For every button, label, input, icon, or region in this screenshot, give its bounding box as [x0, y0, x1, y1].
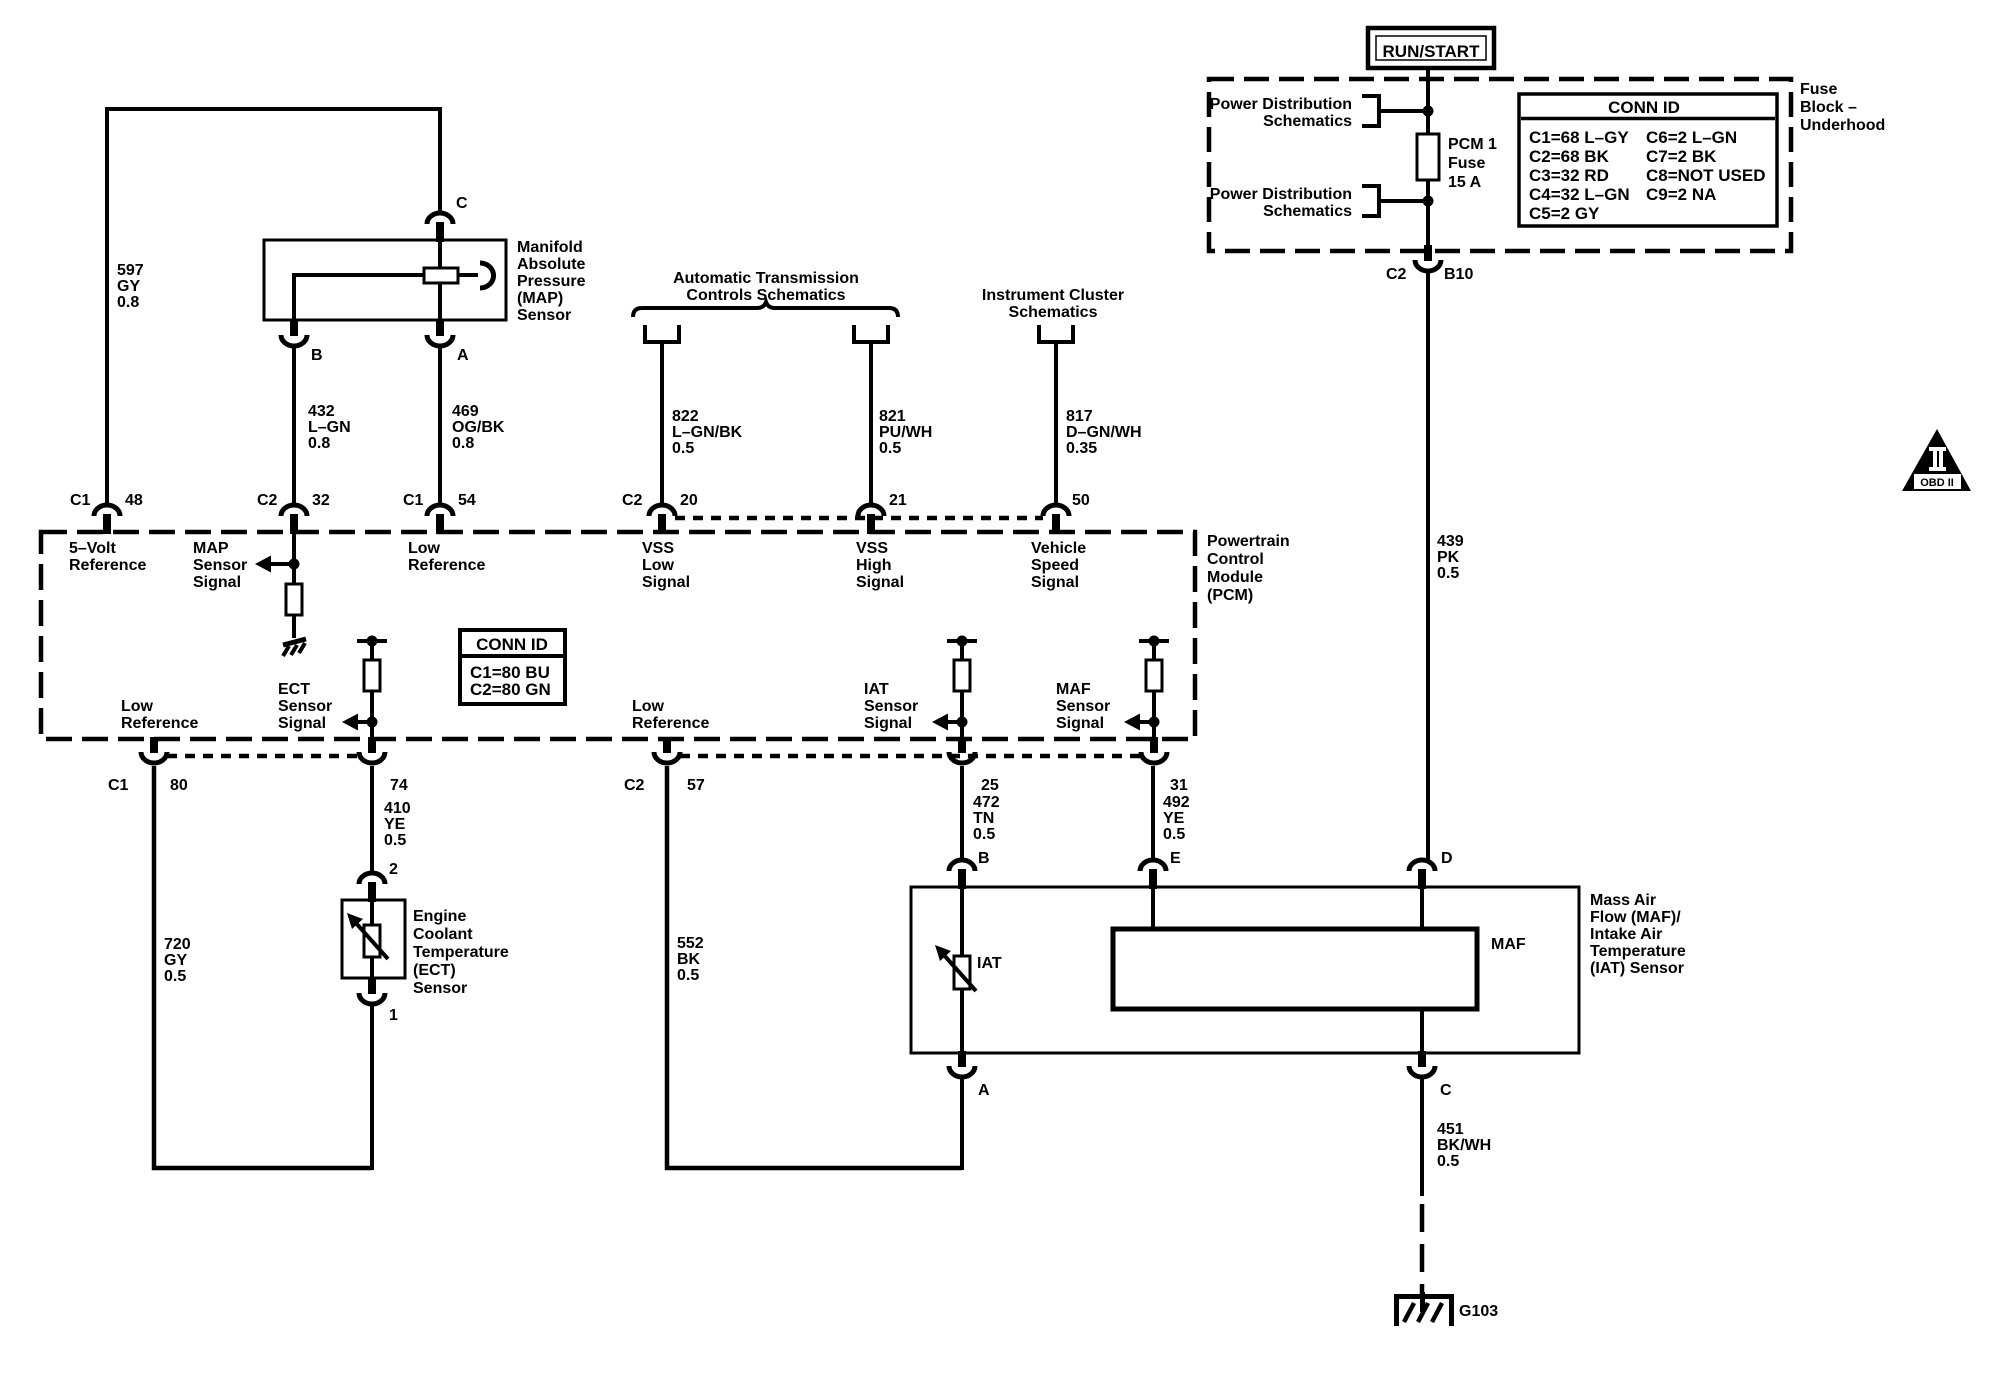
- svg-text:High: High: [856, 557, 892, 574]
- connector MAF pin A: [949, 1051, 975, 1077]
- svg-text:Signal: Signal: [642, 574, 690, 591]
- ECT variable arrow: [347, 913, 388, 959]
- svg-text:(IAT) Sensor: (IAT) Sensor: [1590, 960, 1684, 977]
- svg-text:D: D: [1441, 850, 1453, 867]
- connector pin 74: [359, 737, 385, 763]
- svg-text:48: 48: [125, 492, 143, 509]
- wire 597 GY vertical: [105, 107, 109, 505]
- svg-text:Mass Air: Mass Air: [1590, 892, 1656, 909]
- svg-text:0.5: 0.5: [879, 440, 901, 457]
- svg-text:(MAP): (MAP): [517, 290, 563, 307]
- svg-text:PU/WH: PU/WH: [879, 424, 932, 441]
- svg-text:552: 552: [677, 935, 704, 952]
- Fuse Block dashed box: [1209, 79, 1791, 251]
- svg-text:Temperature: Temperature: [413, 944, 509, 961]
- svg-text:Pressure: Pressure: [517, 273, 586, 290]
- wire D to MAF: [1420, 887, 1424, 929]
- svg-text:Speed: Speed: [1031, 557, 1079, 574]
- svg-text:Sensor: Sensor: [413, 980, 467, 997]
- wire 822 L-GN/BK: [660, 342, 664, 505]
- svg-text:YE: YE: [384, 816, 406, 833]
- svg-text:Signal: Signal: [864, 715, 912, 732]
- svg-text:Block –: Block –: [1800, 99, 1857, 116]
- wire 451 dashed to ground: [1420, 1204, 1425, 1296]
- svg-text:Fuse: Fuse: [1448, 155, 1485, 172]
- svg-text:Sensor: Sensor: [1056, 698, 1110, 715]
- svg-text:25: 25: [981, 777, 999, 794]
- svg-text:Signal: Signal: [193, 574, 241, 591]
- connector ECT pin 1: [359, 978, 385, 1004]
- junction dot IAT signal: [957, 717, 968, 728]
- svg-text:MAF: MAF: [1056, 681, 1091, 698]
- svg-text:Schematics: Schematics: [1263, 113, 1352, 130]
- junction dot MAF signal: [1149, 717, 1160, 728]
- MAF signal arrow: [1124, 714, 1140, 731]
- svg-text:(ECT): (ECT): [413, 962, 456, 979]
- MAF pull-up tee: [1139, 636, 1169, 647]
- svg-text:Reference: Reference: [69, 557, 146, 574]
- wire 410 YE: [370, 766, 374, 872]
- MAP internal wire C to A: [438, 240, 442, 320]
- svg-text:0.35: 0.35: [1066, 440, 1097, 457]
- svg-text:GY: GY: [164, 952, 187, 969]
- bracket upper: [1362, 96, 1379, 126]
- svg-text:Control: Control: [1207, 551, 1264, 568]
- wire 597 GY top horizontal: [105, 107, 442, 111]
- svg-text:469: 469: [452, 403, 479, 420]
- svg-text:C5=2 GY: C5=2 GY: [1529, 204, 1600, 223]
- svg-text:54: 54: [458, 492, 476, 509]
- svg-text:CONN ID: CONN ID: [476, 635, 548, 654]
- wire E to MAF: [1151, 887, 1155, 929]
- ECT sensor box: [342, 900, 405, 978]
- MAP sensor box: [264, 240, 506, 320]
- svg-text:C2=80 GN: C2=80 GN: [470, 680, 551, 699]
- svg-text:Low: Low: [408, 540, 441, 557]
- svg-text:Sensor: Sensor: [864, 698, 918, 715]
- svg-text:C6=2 L–GN: C6=2 L–GN: [1646, 128, 1737, 147]
- wire 492 YE: [1151, 766, 1155, 860]
- svg-text:A: A: [457, 347, 469, 364]
- ECT signal arrow: [342, 714, 358, 731]
- svg-text:Flow (MAF)/: Flow (MAF)/: [1590, 909, 1681, 926]
- svg-text:0.8: 0.8: [117, 294, 139, 311]
- svg-text:2: 2: [389, 861, 398, 878]
- ECT thermistor body: [364, 925, 380, 957]
- svg-text:Signal: Signal: [856, 574, 904, 591]
- connector ECT pin 2: [359, 873, 385, 902]
- connector pin C (MAP): [427, 213, 453, 242]
- wire 472 TN: [960, 766, 964, 860]
- svg-text:C1=68 L–GY: C1=68 L–GY: [1529, 128, 1629, 147]
- svg-text:CONN ID: CONN ID: [1608, 98, 1680, 117]
- wire bracket to main (upper): [1379, 109, 1428, 113]
- svg-text:5–Volt: 5–Volt: [69, 540, 117, 557]
- svg-text:720: 720: [164, 936, 191, 953]
- svg-text:Signal: Signal: [1031, 574, 1079, 591]
- MAF pull-up wire: [1152, 641, 1156, 739]
- svg-text:Sensor: Sensor: [278, 698, 332, 715]
- resistor IAT pull-up: [954, 660, 970, 691]
- svg-text:821: 821: [879, 408, 906, 425]
- svg-text:20: 20: [680, 492, 698, 509]
- svg-text:Reference: Reference: [408, 557, 485, 574]
- connector MAF pin D: [1409, 860, 1435, 889]
- svg-text:472: 472: [973, 794, 1000, 811]
- svg-text:BK/WH: BK/WH: [1437, 1137, 1491, 1154]
- dotted connector line 57-31: [680, 754, 1141, 759]
- RUN/START box: [1368, 28, 1494, 68]
- svg-text:VSS: VSS: [856, 540, 888, 557]
- svg-text:L–GN/BK: L–GN/BK: [672, 424, 743, 441]
- svg-text:Reference: Reference: [121, 715, 198, 732]
- svg-text:0.5: 0.5: [973, 826, 995, 843]
- svg-text:MAF: MAF: [1491, 936, 1526, 953]
- svg-text:Automatic Transmission: Automatic Transmission: [673, 270, 859, 287]
- svg-text:Intake Air: Intake Air: [1590, 926, 1662, 943]
- svg-text:G103: G103: [1459, 1303, 1498, 1320]
- svg-text:Power Distribution: Power Distribution: [1210, 186, 1352, 203]
- svg-text:C8=NOT USED: C8=NOT USED: [1646, 166, 1766, 185]
- svg-text:B: B: [978, 850, 990, 867]
- svg-text:B10: B10: [1444, 266, 1473, 283]
- svg-text:C4=32 L–GN: C4=32 L–GN: [1529, 185, 1630, 204]
- svg-text:BK: BK: [677, 951, 701, 968]
- PCM module box: [41, 532, 1195, 739]
- connector MAF pin E: [1140, 860, 1166, 889]
- svg-text:0.5: 0.5: [164, 968, 186, 985]
- IAT internal wire: [960, 887, 964, 1053]
- svg-text:0.5: 0.5: [1437, 565, 1459, 582]
- CONN ID table (fuse block): [1519, 94, 1777, 226]
- off-page connector symbol 822: [645, 325, 679, 342]
- wire to MAP pin C: [438, 107, 442, 213]
- svg-text:Powertrain: Powertrain: [1207, 533, 1290, 550]
- PCM internal ground: [283, 639, 306, 656]
- svg-text:80: 80: [170, 777, 188, 794]
- svg-text:VSS: VSS: [642, 540, 674, 557]
- svg-text:31: 31: [1170, 777, 1188, 794]
- svg-text:Signal: Signal: [1056, 715, 1104, 732]
- svg-text:Engine: Engine: [413, 908, 466, 925]
- connector MAF pin C: [1409, 1051, 1435, 1077]
- svg-text:817: 817: [1066, 408, 1093, 425]
- off-page connector symbol 821: [854, 325, 888, 342]
- IAT signal arrow: [932, 714, 948, 731]
- svg-text:C1: C1: [108, 777, 129, 794]
- PCM CONN ID table: [460, 630, 565, 704]
- svg-text:Temperature: Temperature: [1590, 943, 1686, 960]
- wire 720 GY: [154, 766, 372, 1168]
- OBD II symbol: [1902, 429, 1971, 491]
- svg-text:A: A: [978, 1082, 990, 1099]
- wire 552 BK: [667, 766, 962, 1168]
- svg-text:C7=2 BK: C7=2 BK: [1646, 147, 1717, 166]
- junction dot ECT signal: [367, 717, 378, 728]
- svg-text:C1: C1: [70, 492, 91, 509]
- fuse PCM 1 15A: [1417, 134, 1439, 180]
- connector C1 pin 48: [94, 505, 120, 534]
- junction dot lower: [1423, 196, 1434, 207]
- connector pin B (MAP): [281, 320, 307, 346]
- svg-text:822: 822: [672, 408, 699, 425]
- svg-text:OG/BK: OG/BK: [452, 419, 505, 436]
- svg-text:410: 410: [384, 800, 411, 817]
- svg-text:432: 432: [308, 403, 335, 420]
- ECT pull-up wire: [370, 641, 374, 739]
- svg-text:E: E: [1170, 850, 1181, 867]
- svg-text:Sensor: Sensor: [517, 307, 571, 324]
- dotted connector line 80-74: [167, 754, 359, 759]
- svg-text:0.5: 0.5: [1163, 826, 1185, 843]
- wire 817 D-GN/WH: [1054, 342, 1058, 505]
- brace: [633, 302, 898, 317]
- svg-text:C3=32 RD: C3=32 RD: [1529, 166, 1609, 185]
- IAT variable arrow: [935, 945, 976, 991]
- wire 439 PK: [1426, 272, 1430, 860]
- svg-text:Power Distribution: Power Distribution: [1210, 96, 1352, 113]
- IAT pull-up wire: [960, 641, 964, 739]
- svg-text:C2=68 BK: C2=68 BK: [1529, 147, 1610, 166]
- connector C2 pin 32: [281, 505, 307, 534]
- svg-text:Coolant: Coolant: [413, 926, 473, 943]
- wire 821 PU/WH: [869, 342, 873, 505]
- svg-text:L–GN: L–GN: [308, 419, 351, 436]
- svg-text:PK: PK: [1437, 549, 1460, 566]
- connector pin 21: [858, 505, 884, 534]
- svg-text:C2: C2: [1386, 266, 1407, 283]
- svg-text:Schematics: Schematics: [1009, 304, 1098, 321]
- svg-text:(PCM): (PCM): [1207, 587, 1253, 604]
- MAP signal internal wire: [292, 534, 296, 638]
- svg-text:0.5: 0.5: [1437, 1153, 1459, 1170]
- IAT pull-up tee: [947, 636, 977, 647]
- svg-text:0.8: 0.8: [308, 435, 330, 452]
- svg-text:GY: GY: [117, 278, 140, 295]
- MAF inner box: [1113, 929, 1477, 1009]
- junction dot MAP signal: [289, 559, 300, 570]
- svg-text:439: 439: [1437, 533, 1464, 550]
- svg-text:RUN/START: RUN/START: [1383, 42, 1481, 61]
- bracket lower: [1362, 186, 1379, 216]
- wire ECT pin1 to loop: [370, 1005, 374, 1170]
- svg-text:IAT: IAT: [977, 955, 1002, 972]
- svg-text:Vehicle: Vehicle: [1031, 540, 1086, 557]
- wire MAF to C: [1420, 1009, 1424, 1053]
- connector pin A (MAP): [427, 320, 453, 346]
- MAP port arc: [480, 263, 494, 288]
- connector C2 pin 57: [654, 737, 680, 763]
- svg-text:Manifold: Manifold: [517, 239, 583, 256]
- svg-text:C2: C2: [257, 492, 278, 509]
- MAP transducer element: [424, 268, 458, 283]
- svg-text:MAP: MAP: [193, 540, 229, 557]
- svg-text:1: 1: [389, 1007, 398, 1024]
- connector C1 pin 80: [141, 737, 167, 763]
- MAP port line: [458, 273, 478, 277]
- svg-text:597: 597: [117, 262, 144, 279]
- dotted connector line 20-50: [675, 516, 1043, 521]
- svg-text:0.5: 0.5: [672, 440, 694, 457]
- svg-text:0.8: 0.8: [452, 435, 474, 452]
- svg-text:C2: C2: [624, 777, 645, 794]
- svg-text:492: 492: [1163, 794, 1190, 811]
- connector pin 31: [1141, 737, 1167, 763]
- svg-text:C9=2 NA: C9=2 NA: [1646, 185, 1716, 204]
- svg-text:50: 50: [1072, 492, 1090, 509]
- svg-text:OBD II: OBD II: [1920, 477, 1954, 489]
- IAT thermistor body: [954, 956, 970, 989]
- ground G103: [1394, 1292, 1454, 1326]
- svg-text:15 A: 15 A: [1448, 174, 1482, 191]
- connector MAF pin B: [949, 860, 975, 889]
- connector pin 50: [1043, 505, 1069, 534]
- svg-text:32: 32: [312, 492, 330, 509]
- svg-text:Module: Module: [1207, 569, 1263, 586]
- wire A down: [960, 1078, 964, 1170]
- svg-text:Low: Low: [632, 698, 665, 715]
- svg-text:74: 74: [390, 777, 408, 794]
- svg-text:TN: TN: [973, 810, 994, 827]
- svg-text:IAT: IAT: [864, 681, 889, 698]
- svg-text:Fuse: Fuse: [1800, 81, 1837, 98]
- resistor MAP pulldown: [286, 584, 302, 615]
- MAP signal arrow: [255, 556, 271, 573]
- wire 432 L-GN: [292, 347, 296, 505]
- svg-text:451: 451: [1437, 1121, 1464, 1138]
- resistor MAF pull-up: [1146, 660, 1162, 691]
- svg-text:D–GN/WH: D–GN/WH: [1066, 424, 1142, 441]
- svg-text:Reference: Reference: [632, 715, 709, 732]
- wire 469 OG/BK: [438, 347, 442, 505]
- connector C2 pin 20: [649, 505, 675, 534]
- svg-text:ECT: ECT: [278, 681, 310, 698]
- wire bracket to main (lower): [1379, 199, 1428, 203]
- resistor ECT pull-up: [364, 660, 380, 691]
- svg-text:0.5: 0.5: [677, 967, 699, 984]
- svg-text:0.5: 0.5: [384, 832, 406, 849]
- connector C2 pin B10: [1415, 245, 1441, 271]
- svg-text:57: 57: [687, 777, 705, 794]
- svg-text:Sensor: Sensor: [193, 557, 247, 574]
- wire fuse down: [1426, 180, 1430, 251]
- wire 451 BK/WH solid: [1420, 1078, 1424, 1196]
- ECT internal wire: [370, 900, 374, 978]
- svg-text:C: C: [456, 195, 468, 212]
- svg-text:C1: C1: [403, 492, 424, 509]
- connector pin 25: [949, 737, 975, 763]
- ECT pull-up tee: [357, 636, 387, 647]
- svg-text:C: C: [1440, 1082, 1452, 1099]
- svg-text:Absolute: Absolute: [517, 256, 586, 273]
- MAF/IAT sensor box: [911, 887, 1579, 1053]
- svg-text:21: 21: [889, 492, 907, 509]
- svg-text:Underhood: Underhood: [1800, 117, 1885, 134]
- connector C1 pin 54: [427, 505, 453, 534]
- MAP internal wire from B: [294, 275, 424, 320]
- svg-text:Instrument Cluster: Instrument Cluster: [982, 287, 1124, 304]
- svg-text:PCM 1: PCM 1: [1448, 136, 1497, 153]
- off-page connector symbol 817: [1039, 325, 1073, 342]
- wire RUN/START to fuse: [1426, 69, 1430, 134]
- svg-text:Schematics: Schematics: [1263, 203, 1352, 220]
- svg-text:C2: C2: [622, 492, 643, 509]
- svg-text:Signal: Signal: [278, 715, 326, 732]
- svg-text:Low: Low: [121, 698, 154, 715]
- svg-text:YE: YE: [1163, 810, 1185, 827]
- svg-text:Low: Low: [642, 557, 675, 574]
- svg-text:B: B: [311, 347, 323, 364]
- junction dot upper: [1423, 106, 1434, 117]
